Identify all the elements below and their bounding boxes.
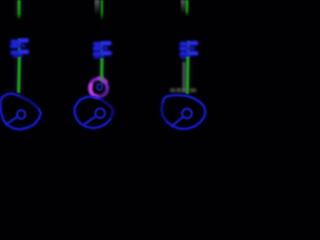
wire W3 lower xyxy=(186,57,190,95)
spring S2 coils xyxy=(95,43,110,57)
spring S2 haze xyxy=(94,42,111,60)
wire W1 top halo xyxy=(15,0,23,16)
wheel B3 spoke xyxy=(172,117,183,127)
wheel B1 rim halo xyxy=(0,94,40,130)
wheel B3 rim dimming left xyxy=(162,104,167,122)
wire W1 lower xyxy=(17,57,21,93)
wheel B2 axle circle xyxy=(96,109,105,118)
spring S3 haze xyxy=(181,42,198,60)
joint marker inside scribble xyxy=(97,84,103,90)
wire W2 middle halo xyxy=(98,60,106,79)
wire W2 tip over scribble xyxy=(100,76,103,82)
spring S3 coils xyxy=(181,43,196,57)
wheel B1 rim dimming top-right xyxy=(20,96,39,108)
motor scribble M2 dim lower-right xyxy=(99,90,107,97)
spring S1 coils xyxy=(12,40,27,56)
spring S1 core wire xyxy=(18,39,21,58)
wire W3 lower halo xyxy=(184,58,192,93)
spring S3 core wire xyxy=(187,41,190,57)
wheel B1 rim xyxy=(0,94,40,130)
wire W2 top gray xyxy=(95,0,100,15)
wheel B3 rim halo xyxy=(162,95,206,129)
wheel B3 rim xyxy=(162,95,206,129)
wheel B3 axle circle xyxy=(182,109,192,119)
motor scribble M2 bright left arc xyxy=(90,83,98,97)
motor scribble M2 outer ring xyxy=(90,79,107,97)
motor scribble M2 bright top arc xyxy=(98,78,107,83)
spring S1 haze xyxy=(11,39,28,58)
wheel B1 spoke xyxy=(6,117,18,125)
wheel B2 rim dimming top-right xyxy=(101,99,113,118)
wheel B2 rim xyxy=(75,97,114,129)
wheel B1 axle circle xyxy=(17,110,25,118)
wire W2 middle xyxy=(100,59,104,81)
faint mark above wheel B1 xyxy=(5,89,14,91)
wire W1 top xyxy=(17,0,20,20)
wheel B2 spoke xyxy=(84,116,96,124)
wire W3 top gray xyxy=(181,0,185,14)
wheel B2 rim halo xyxy=(75,97,114,129)
wire W3 lower gray xyxy=(182,62,185,92)
wire W2 top xyxy=(100,0,103,21)
faint label text above wheel B3 xyxy=(170,88,196,92)
spring S2 core wire xyxy=(100,42,103,60)
wire W3 top xyxy=(185,0,188,16)
wire W1 lower halo xyxy=(15,58,23,92)
